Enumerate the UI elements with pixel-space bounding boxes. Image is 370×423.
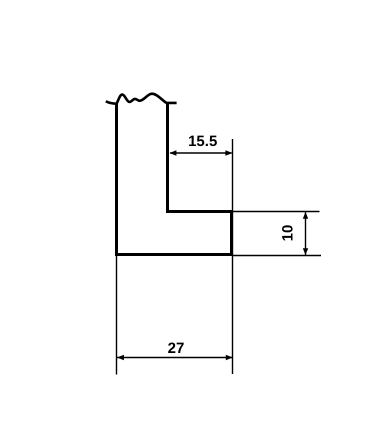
extension line left for 27 dim <box>116 256 118 375</box>
dimension line 10 <box>305 212 307 255</box>
arrowhead up of 10 <box>303 212 308 219</box>
svg-text:15.5: 15.5 <box>188 133 217 150</box>
arrowhead right of 15.5 <box>225 150 232 155</box>
arrowhead right of 27 <box>226 355 233 360</box>
arrowhead left of 15.5 <box>170 150 177 155</box>
extension line top for 10 dim <box>233 211 320 213</box>
svg-text:27: 27 <box>168 340 185 357</box>
break line zigzag at top of vertical leg <box>106 94 177 104</box>
dimension line 27 <box>117 357 232 359</box>
extension line bottom for 10 dim <box>233 255 321 257</box>
dimension line 15.5 <box>170 152 232 154</box>
L-profile outline <box>117 104 232 255</box>
extension line right (shared by 15.5 and 27 dims) <box>232 139 234 374</box>
arrowhead left of 27 <box>117 355 124 360</box>
arrowhead down of 10 <box>303 248 308 255</box>
svg-text:10: 10 <box>280 225 297 242</box>
